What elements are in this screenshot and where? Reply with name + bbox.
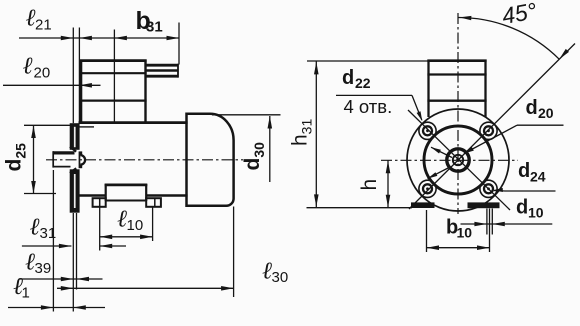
svg-text:30: 30 [272,269,289,286]
svg-text:20: 20 [34,65,51,82]
svg-text:d: d [516,197,528,219]
svg-text:10: 10 [127,217,144,234]
svg-text:10: 10 [457,225,473,241]
svg-text:4 отв.: 4 отв. [344,96,393,117]
svg-text:d: d [526,97,538,119]
svg-text:10: 10 [528,205,544,221]
svg-text:22: 22 [355,75,371,91]
svg-text:d: d [518,160,530,182]
svg-text:39: 39 [35,260,52,277]
svg-text:d: d [342,67,354,89]
svg-text:ℓ: ℓ [117,207,127,233]
svg-text:20: 20 [538,105,554,121]
svg-text:ℓ: ℓ [30,215,40,241]
svg-text:ℓ: ℓ [26,6,36,32]
svg-text:ℓ: ℓ [25,250,35,276]
svg-text:21: 21 [35,17,52,34]
svg-text:24: 24 [530,169,546,185]
svg-text:31: 31 [146,19,163,36]
svg-text:1: 1 [22,285,30,302]
svg-text:ℓ: ℓ [262,259,272,285]
svg-text:31: 31 [40,225,57,242]
svg-text:ℓ: ℓ [23,54,33,80]
svg-text:h: h [358,179,381,191]
